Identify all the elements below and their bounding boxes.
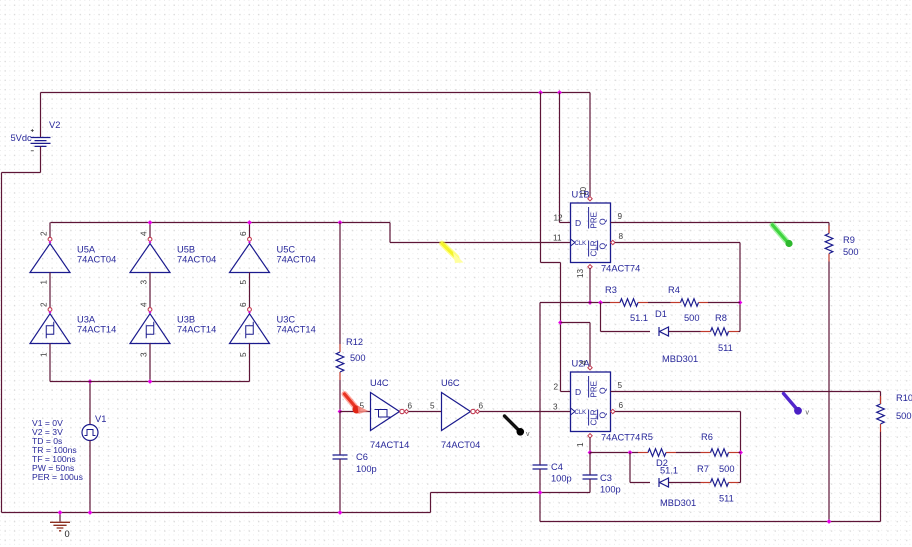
wire U1B Qbar pin8 right [615, 242, 740, 244]
svg-text:U3B: U3B [177, 315, 195, 325]
svg-text:Q: Q [598, 243, 608, 250]
junction U2A PRE branch [558, 320, 563, 325]
wire U2A CLR pin1 down [589, 438, 591, 453]
junction ground stem at rail [58, 510, 63, 515]
wire battery to left edge [2, 172, 41, 174]
svg-text:CLK: CLK [575, 410, 587, 416]
inverter U6C 74ACT04 [442, 393, 471, 431]
svg-text:74ACT14: 74ACT14 [77, 325, 116, 335]
junction U3B input at rail [148, 379, 153, 384]
capacitor C6 [333, 455, 348, 459]
wire CLR node to R3 [590, 302, 610, 304]
svg-text:6: 6 [239, 231, 248, 236]
wire U5B input to U3B output [149, 273, 151, 308]
wire Qbar drop to R4 node [739, 243, 741, 332]
wire V1 top lead [89, 382, 91, 425]
wire R6 to node corner [739, 452, 741, 454]
U5B output pin marker [149, 241, 152, 244]
svg-text:U3A: U3A [77, 315, 96, 325]
svg-text:U5C: U5C [277, 245, 296, 255]
wire left edge vertical [1, 173, 3, 513]
svg-text:500: 500 [350, 353, 366, 363]
U2A CLR pin marker [588, 434, 592, 438]
voltage source V2 battery symbol [31, 138, 51, 147]
resistor R8 [701, 331, 711, 333]
svg-text:500: 500 [896, 411, 912, 421]
svg-text:11: 11 [553, 234, 562, 243]
svg-text:5: 5 [430, 402, 435, 411]
diode D1 MBD301 [659, 327, 669, 336]
U6C output bubble [471, 409, 475, 413]
flip-flop U2A 74ACT74 body [571, 372, 611, 432]
wire jog 540-560 [541, 262, 561, 264]
wire x540 vertical from top rail [540, 93, 542, 263]
svg-text:74ACT04: 74ACT04 [277, 255, 316, 265]
svg-text:U6C: U6C [441, 378, 460, 388]
junction R9 at ground rail [827, 519, 832, 524]
svg-text:3: 3 [140, 352, 149, 357]
U4C output bubble [400, 409, 404, 413]
wire U3C input lead [249, 344, 251, 382]
svg-text:74ACT74: 74ACT74 [601, 264, 640, 274]
svg-text:8: 8 [619, 232, 624, 241]
wire CLR2 node to R5 [590, 452, 638, 454]
svg-text:4: 4 [579, 360, 588, 365]
wire C6 bottom lead [339, 459, 341, 513]
wire U5C input to U3C output [249, 273, 251, 308]
wire inverter input rail y=381 [50, 381, 250, 383]
svg-text:D: D [575, 218, 581, 228]
wire U1B CLR pin13 down [589, 268, 591, 303]
wire R9 top corner [828, 223, 830, 234]
svg-text:C6: C6 [356, 452, 368, 462]
probe marker purple [784, 394, 796, 408]
wire V2 bottom lead [40, 146, 42, 172]
wire C4 ground drop [539, 493, 541, 522]
svg-text:9: 9 [618, 212, 623, 221]
svg-text:D2: D2 [656, 458, 668, 468]
wire U5A input to U3A output [49, 273, 51, 308]
wire R7 to node corner [739, 482, 741, 484]
svg-text:74ACT04: 74ACT04 [77, 255, 116, 265]
svg-text:MBD301: MBD301 [660, 498, 696, 508]
svg-text:PER = 100us: PER = 100us [32, 472, 83, 482]
wire x559.5 vertical to U1B D [559, 93, 561, 223]
svg-text:R8: R8 [715, 313, 727, 323]
probe marker yellow [442, 244, 457, 258]
wire U1B Q pin9 to R9 [611, 222, 830, 224]
svg-text:v: v [806, 410, 810, 417]
wire U2A Q pin5 to R10 [611, 391, 881, 393]
svg-text:4: 4 [140, 231, 149, 236]
wire bottom ground rail left [2, 512, 431, 514]
probe marker red [345, 394, 355, 406]
svg-text:D1: D1 [655, 309, 667, 319]
resistor R10 [880, 396, 882, 404]
U1B Qbar pin marker [611, 240, 615, 244]
U1B CLR pin marker [588, 265, 592, 269]
U3A output bubble [48, 308, 52, 312]
U1B clock wedge [571, 239, 576, 246]
svg-text:1: 1 [40, 280, 49, 285]
wire R12 top [339, 223, 341, 345]
wire R4 to node [708, 302, 740, 304]
svg-text:5: 5 [239, 280, 248, 285]
svg-text:51.1: 51.1 [630, 313, 648, 323]
wire U3B input lead [149, 344, 151, 382]
wire V1 bottom lead [89, 441, 91, 513]
svg-text:500: 500 [843, 247, 859, 257]
wire top supply rail y=92 [41, 92, 591, 94]
wire ground rail step up [430, 493, 432, 513]
wire node to U4C input [340, 411, 371, 413]
svg-text:CLK: CLK [575, 241, 587, 247]
wire D1 branch drop [600, 303, 602, 332]
U3B output pin marker [149, 311, 152, 314]
junction D1 branch [598, 300, 603, 305]
junction R12 tap on rail [338, 220, 343, 225]
wire U5C output lead [249, 223, 251, 238]
svg-text:U4C: U4C [370, 378, 389, 388]
svg-text:MBD301: MBD301 [662, 354, 698, 364]
svg-text:74ACT04: 74ACT04 [177, 255, 216, 265]
capacitor C4 [533, 465, 548, 469]
wire D2 row left [630, 482, 650, 484]
svg-text:511: 511 [719, 494, 734, 504]
svg-text:74ACT14: 74ACT14 [277, 325, 316, 335]
U6C output pin marker [475, 409, 479, 413]
svg-text:R4: R4 [668, 285, 680, 295]
svg-text:500: 500 [684, 313, 700, 323]
resistor R6 [701, 452, 711, 454]
U3A output pin marker [49, 311, 52, 314]
wire branch to U2A PRE horizontal [561, 322, 591, 324]
wire ground stem [59, 513, 61, 522]
svg-text:V2: V2 [49, 120, 60, 130]
wire V2 top lead [40, 93, 42, 138]
wire R5 to R6 [676, 452, 701, 454]
wire U1B PRE drop from top rail [589, 93, 591, 197]
svg-text:0: 0 [65, 529, 70, 539]
wire U6C to U2A CLK pin 3 [480, 411, 571, 413]
svg-text:100p: 100p [356, 464, 377, 474]
svg-text:R10: R10 [896, 393, 912, 403]
wire C4 bottom lead [539, 469, 541, 493]
svg-text:U5A: U5A [77, 245, 96, 255]
probe marker black [505, 416, 519, 430]
junction D2 branch [628, 450, 633, 455]
svg-text:R9: R9 [843, 235, 855, 245]
svg-text:3: 3 [140, 280, 149, 285]
wire C6 top lead [339, 412, 341, 456]
inverter U3A 74ACT14 schmitt [30, 314, 70, 344]
svg-text:2: 2 [40, 302, 49, 307]
wire Qbar2 drop [740, 412, 742, 483]
svg-text:2: 2 [40, 231, 49, 236]
svg-text:3: 3 [553, 403, 558, 412]
svg-text:R12: R12 [346, 337, 363, 347]
resistor R7 [701, 482, 711, 484]
junction U5C output at rail [247, 220, 252, 225]
wire ground rail mid segment y=492 [431, 492, 591, 494]
svg-text:5Vdc: 5Vdc [11, 133, 33, 143]
svg-text:R5: R5 [641, 432, 653, 442]
wire R10 top corner [880, 392, 882, 405]
inverter U3C 74ACT14 schmitt [230, 314, 270, 344]
ground 0 symbol [50, 522, 70, 531]
svg-text:6: 6 [479, 402, 484, 411]
svg-text:2: 2 [554, 383, 559, 392]
svg-text:R3: R3 [605, 285, 617, 295]
wire D1 to R8 [669, 331, 701, 333]
wire C4 top drop [539, 303, 541, 466]
svg-text:5: 5 [618, 381, 623, 390]
wire D2 branch drop [629, 453, 631, 483]
svg-text:Q: Q [598, 387, 608, 394]
wire D2 to R7 [669, 482, 701, 484]
svg-text:D: D [575, 387, 581, 397]
U5C output pin marker [248, 241, 251, 244]
wire U5A output lead [49, 223, 51, 238]
svg-text:U3C: U3C [277, 315, 296, 325]
svg-text:100p: 100p [600, 485, 621, 495]
inverter U5A 74ACT04 [30, 244, 70, 273]
svg-text:12: 12 [554, 214, 564, 223]
wire U2A D stub [561, 391, 571, 393]
junction feed x559.5 at top rail [557, 90, 562, 95]
wire R9 bottom to ground rail [828, 262, 830, 522]
wire x560 vertical to U2A D [560, 263, 562, 392]
wire rail step down at x=390 [389, 223, 391, 243]
junction R12/C6/U4C node [338, 409, 343, 414]
U5A output bubble [48, 237, 52, 241]
capacitor C3 [583, 475, 598, 479]
wire D1 row left [601, 331, 651, 333]
wire R3 to R4 [648, 302, 671, 304]
junction R6/R7 node [738, 450, 743, 455]
svg-text:C3: C3 [600, 473, 612, 483]
inverter U5C 74ACT04 [230, 244, 270, 273]
U5C output bubble [248, 237, 252, 241]
svg-text:13: 13 [576, 268, 585, 278]
junction CLR2/C3/R5 node [588, 450, 593, 455]
wire CLR node left [540, 302, 590, 304]
svg-text:1: 1 [576, 442, 585, 447]
wire R8 to node corner [739, 331, 741, 333]
wire U2A Qbar pin6 right [615, 411, 741, 413]
inverter U4C 74ACT14 schmitt [371, 393, 400, 431]
junction U5B output at rail [148, 220, 153, 225]
svg-text:U5B: U5B [177, 245, 195, 255]
resistor R3 [610, 302, 620, 304]
svg-text:Q: Q [598, 218, 608, 225]
svg-text:v: v [526, 431, 530, 438]
svg-text:Q: Q [598, 412, 608, 419]
U3C output pin marker [248, 311, 251, 314]
wire inverter output rail y=222 [51, 222, 391, 224]
U2A Qbar pin marker [611, 409, 615, 413]
svg-text:74ACT14: 74ACT14 [370, 440, 409, 450]
inverter U5B 74ACT04 [130, 244, 170, 273]
svg-text:100p: 100p [551, 474, 572, 484]
junction R4/R8 node [738, 300, 743, 305]
wire R12 bottom to node [339, 380, 341, 412]
junction feed x540 at top rail [538, 90, 543, 95]
wire U5B output lead [149, 223, 151, 238]
svg-text:74ACT74: 74ACT74 [601, 433, 640, 443]
svg-text:5: 5 [239, 352, 248, 357]
wire C3 top lead [589, 453, 591, 476]
svg-text:C4: C4 [551, 462, 563, 472]
junction V1 top at rail [88, 379, 93, 384]
U2A clock wedge [571, 408, 576, 415]
svg-text:R6: R6 [701, 432, 713, 442]
wire to U1B CLK pin 11 [390, 242, 571, 244]
svg-text:74ACT14: 74ACT14 [177, 325, 216, 335]
diode D2 MBD301 [659, 478, 669, 487]
flip-flop U1B 74ACT74 body [571, 203, 611, 263]
junction C4 at ground wire [538, 490, 543, 495]
wire U4C to U6C [409, 411, 442, 413]
wire U2A PRE drop [589, 323, 591, 366]
U5B output bubble [148, 237, 152, 241]
U1B PRE pin marker [588, 197, 592, 201]
resistor R5 [638, 452, 648, 454]
junction C6 at ground rail [338, 510, 343, 515]
inverter U3B 74ACT14 schmitt [130, 314, 170, 344]
junction V1 bottom at rail [88, 510, 93, 515]
wire bottom ground rail right y=521 [540, 521, 881, 523]
wire R10 bottom to ground rail [880, 432, 882, 522]
svg-text:1: 1 [40, 352, 49, 357]
svg-text:500: 500 [719, 464, 735, 474]
svg-text:74ACT04: 74ACT04 [441, 440, 480, 450]
probe marker green [773, 225, 787, 241]
junction CLR/C4/R3 node [588, 300, 593, 305]
svg-text:R7: R7 [697, 464, 709, 474]
voltage source V1 pulse [82, 425, 98, 441]
U2A PRE pin marker [588, 366, 592, 370]
U5A output pin marker [49, 241, 52, 244]
resistor R12 [339, 344, 341, 352]
resistor R9 [828, 226, 830, 234]
svg-text:V1: V1 [95, 414, 106, 424]
svg-text:10: 10 [579, 186, 588, 196]
wire U1B D stub [560, 222, 571, 224]
svg-text:4: 4 [140, 302, 149, 307]
svg-text:511: 511 [718, 343, 733, 353]
svg-text:6: 6 [619, 401, 624, 410]
wire C3 bottom lead [589, 479, 591, 493]
U3B output bubble [148, 308, 152, 312]
svg-text:6: 6 [239, 302, 248, 307]
U4C output pin marker [404, 409, 408, 413]
U3C output bubble [248, 308, 252, 312]
resistor R4 [671, 302, 681, 304]
svg-text:6: 6 [408, 402, 413, 411]
wire U3A input lead [49, 344, 51, 382]
